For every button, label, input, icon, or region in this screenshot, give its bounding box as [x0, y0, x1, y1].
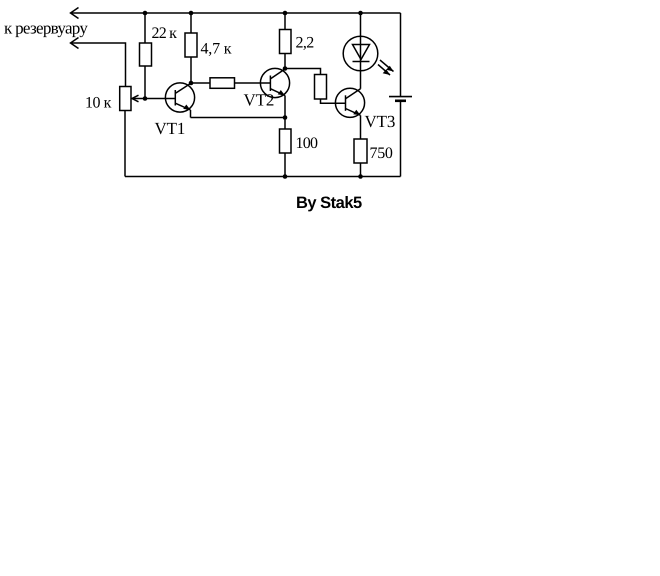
junction VT1 collector node — [189, 81, 194, 86]
LED emission arrow 2 — [378, 65, 390, 76]
transistor VT1 base bar — [174, 90, 176, 106]
wire base resistor to VT2 base — [235, 82, 271, 84]
transistor VT2 body circle — [260, 68, 289, 97]
wire 22k bottom to wiper node — [144, 66, 146, 99]
junction top rail / LED — [358, 11, 363, 16]
svg-text:100: 100 — [296, 135, 319, 152]
resistor 4.7k body — [185, 33, 197, 57]
svg-text:4,7 к: 4,7 к — [201, 41, 232, 58]
junction wiper node — [143, 96, 148, 101]
wire 4.7k branch top — [190, 13, 192, 33]
wire bottom ground rail — [125, 176, 401, 178]
junction bottom rail / 100 — [283, 174, 288, 179]
resistor VT2 base body — [210, 78, 235, 89]
svg-text:2,2: 2,2 — [296, 35, 315, 52]
LED emission arrow 1 — [380, 60, 394, 72]
transistor VT2 base bar — [269, 76, 271, 92]
svg-text:VT3: VT3 — [365, 112, 396, 131]
transistor VT2 emitter lead — [270, 89, 285, 96]
wire battery negative to bottom rail — [400, 102, 402, 177]
transistor VT3 emitter arrowhead — [353, 110, 360, 116]
resistor 750 body — [354, 139, 367, 163]
svg-text:VT1: VT1 — [155, 119, 186, 138]
wire 22k branch top — [144, 13, 146, 43]
svg-text:VT2: VT2 — [244, 91, 275, 110]
junction VT2 collector node — [283, 66, 288, 71]
transistor VT3 collector lead — [346, 89, 361, 99]
wire wiper to VT1 base — [132, 98, 175, 100]
wire emitter rail VT1-VT2 — [191, 117, 286, 119]
LED HL1 body circle — [343, 36, 378, 71]
transistor VT1 emitter arrowhead — [183, 105, 190, 111]
wire VT1 emitter down — [190, 110, 192, 118]
wire collector node to base resistor — [191, 82, 210, 84]
svg-text:22 к: 22 к — [152, 25, 178, 42]
svg-text:10 к: 10 к — [85, 95, 112, 112]
transistor VT1 emitter lead — [175, 103, 190, 110]
wire VT2 emitter down to 100 resistor — [284, 96, 286, 130]
arrow to reservoir (top lead) — [71, 8, 79, 19]
wire second lead to reservoir — [71, 43, 126, 87]
junction top rail / 2.2 — [283, 11, 288, 16]
battery GB1 negative plate — [395, 100, 406, 103]
wire 2.2 bottom to VT2 collector node — [284, 54, 286, 69]
junction top rail / 22k — [143, 11, 148, 16]
battery GB1 positive plate — [389, 96, 412, 98]
wire 4.7k bottom to VT1 collector node — [190, 57, 192, 83]
resistor 2.2 body — [280, 30, 292, 54]
resistor 100 body — [280, 129, 292, 153]
wire top supply rail — [71, 12, 401, 14]
transistor VT3 body circle — [335, 88, 364, 117]
resistor 22k body — [140, 43, 152, 66]
transistor VT2 emitter arrowhead — [278, 90, 285, 96]
transistor VT2 collector lead — [270, 69, 285, 79]
wire VT3 emitter to 750 resistor — [360, 115, 362, 139]
wire right vertical (battery branch) — [400, 13, 402, 96]
wire 750 resistor to bottom rail — [360, 163, 362, 177]
transistor VT3 base bar — [345, 95, 347, 111]
transistor VT1 body circle — [165, 83, 194, 112]
transistor VT1 collector lead — [175, 84, 190, 94]
potentiometer R 10k body — [120, 87, 131, 111]
resistor coupling body — [315, 75, 327, 100]
LED HL1 anode triangle — [353, 45, 370, 60]
svg-text:750: 750 — [370, 145, 393, 162]
junction emitter rail node — [283, 115, 288, 120]
arrow to reservoir (second lead) — [71, 38, 79, 49]
wire 100 resistor to bottom rail — [284, 153, 286, 177]
junction bottom rail / 750 — [358, 174, 363, 179]
potentiometer wiper arrow — [132, 95, 139, 102]
wire coupling resistor to VT3 base — [321, 99, 346, 103]
LED HL1 cathode bar — [353, 61, 370, 63]
wire VT2 collector node to coupling resistor — [285, 69, 321, 75]
transistor VT3 emitter lead — [346, 109, 361, 116]
wire left vertical (potentiometer bottom) — [124, 111, 126, 177]
wire LED branch through LED to VT3 collector — [360, 13, 362, 89]
svg-text:By Stak5: By Stak5 — [296, 194, 362, 212]
svg-text:к резервуару: к резервуару — [4, 19, 88, 38]
wire 2.2 branch top — [284, 13, 286, 30]
junction top rail / 4.7k — [189, 11, 194, 16]
